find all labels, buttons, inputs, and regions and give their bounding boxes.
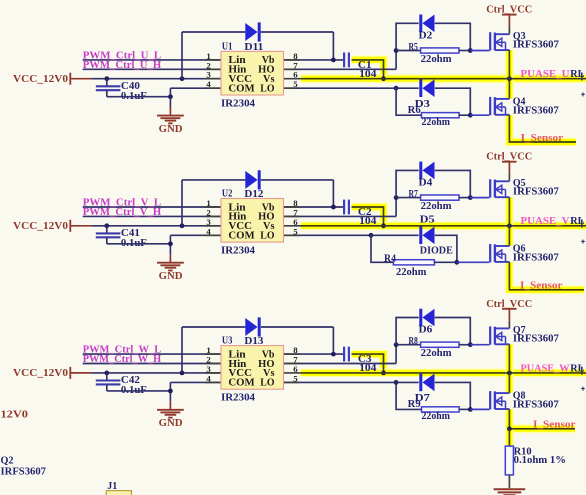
svg-text:IRFS3607: IRFS3607 bbox=[513, 253, 559, 264]
net label PUASE_VRL bbox=[521, 215, 585, 227]
resistor R9 22ohm bbox=[396, 382, 470, 422]
svg-text:3: 3 bbox=[206, 217, 211, 227]
wire C42 to ground bbox=[107, 390, 171, 392]
wire pin1 Lin U2 bbox=[83, 206, 221, 208]
wire D2 loop bbox=[396, 23, 470, 50]
diode D11 bbox=[245, 22, 259, 41]
power label 12V0 (cut off) bbox=[1, 410, 29, 421]
net label PWM_Ctrl_U_H bbox=[83, 59, 162, 71]
wire drain Q5 / source to phase / drain Q6 bbox=[508, 197, 510, 246]
junction Vs / C3 bbox=[381, 371, 386, 376]
svg-text:COM: COM bbox=[228, 378, 255, 389]
svg-text:6: 6 bbox=[293, 70, 298, 80]
junction phase node Q7/Q8 bbox=[507, 371, 512, 376]
svg-text:PUASE_W: PUASE_W bbox=[521, 362, 570, 374]
diode D3 bbox=[415, 79, 435, 109]
svg-text:3: 3 bbox=[206, 364, 211, 374]
net highlight C2 to Vs (yellow) bbox=[352, 207, 384, 226]
off-sheet tick phase rail bbox=[581, 220, 585, 244]
svg-text:DIODE: DIODE bbox=[420, 246, 453, 257]
junction pin3 / C40 bbox=[104, 76, 109, 81]
junction Vb / C2 bbox=[331, 205, 336, 210]
svg-text:Q2: Q2 bbox=[1, 456, 14, 467]
net highlight Q6 source to I_Sensor (yellow) bbox=[509, 262, 584, 290]
wire pin5 LO U2 bbox=[284, 234, 371, 236]
junction R5 / D2 / gate Q3 bbox=[468, 48, 473, 53]
svg-text:12V0: 12V0 bbox=[1, 410, 29, 421]
wire C40 to ground bbox=[107, 96, 171, 98]
wire gate Q4 bbox=[470, 114, 489, 116]
junction pin3 / D11 branch bbox=[180, 76, 185, 81]
svg-text:IRFS3607: IRFS3607 bbox=[513, 334, 559, 345]
net label PUASE_URL bbox=[521, 68, 585, 80]
transistor Q4 IRFS3607 bbox=[490, 97, 559, 117]
wire pin1 Lin U1 bbox=[83, 59, 221, 61]
junction COM / C41 / ground bbox=[168, 241, 173, 246]
svg-text:R5: R5 bbox=[409, 42, 418, 53]
svg-text:GND: GND bbox=[159, 271, 183, 282]
wire pin3 VCC U1 bbox=[92, 78, 221, 80]
power port Ctrl_VCC bbox=[486, 299, 532, 321]
ground GND bbox=[157, 107, 184, 135]
net highlight Q3/Q4 phase column (yellow) bbox=[505, 50, 514, 99]
wire Ctrl_VCC to drain Q7 bbox=[508, 321, 510, 329]
svg-text:U1: U1 bbox=[222, 41, 233, 52]
power port VCC_12V0 bbox=[13, 73, 92, 85]
wire VCC to bootstrap diode D12 bbox=[182, 180, 245, 226]
wire drain Q7 / source to phase / drain Q8 bbox=[508, 344, 510, 393]
svg-text:VCC_12V0: VCC_12V0 bbox=[13, 74, 68, 85]
svg-text:LO: LO bbox=[260, 84, 274, 95]
power port Ctrl_VCC bbox=[486, 5, 532, 27]
wire pin2 Hin U3 bbox=[83, 363, 221, 365]
resistor R8 22ohm bbox=[396, 336, 470, 359]
transistor Q5 IRFS3607 bbox=[490, 178, 559, 198]
wire pin8 Vb U3 bbox=[284, 353, 344, 355]
net label PWM_Ctrl_U_L bbox=[83, 49, 162, 61]
svg-text:PUASE_U: PUASE_U bbox=[521, 68, 570, 80]
junction COM / C42 / ground bbox=[168, 389, 173, 394]
wire gate Q3 bbox=[470, 50, 489, 52]
net label PWM_Ctrl_W_L bbox=[83, 344, 162, 356]
svg-text:R4: R4 bbox=[384, 253, 397, 264]
U2 pin numbers bbox=[206, 198, 298, 236]
resistor R6 22ohm bbox=[396, 88, 470, 128]
wire pin6 Vs phase rail PUASE_WRL bbox=[284, 372, 586, 374]
svg-text:D12: D12 bbox=[244, 189, 263, 200]
svg-text:22ohm: 22ohm bbox=[396, 267, 427, 278]
svg-text:PWM_Ctrl_V_H: PWM_Ctrl_V_H bbox=[83, 206, 162, 218]
svg-text:LO: LO bbox=[260, 378, 274, 389]
wire gate Q8 bbox=[470, 408, 489, 410]
svg-text:R7: R7 bbox=[409, 189, 418, 200]
svg-text:U3: U3 bbox=[222, 336, 233, 347]
diode D6 bbox=[419, 309, 435, 336]
IC U3 IR2304 bbox=[221, 336, 284, 404]
svg-text:22ohm: 22ohm bbox=[422, 411, 451, 422]
transistor Q3 IRFS3607 bbox=[490, 31, 559, 51]
junction I_Sensor / R10 bbox=[507, 426, 512, 431]
capacitor C3 104 bbox=[344, 347, 377, 375]
U3 pin names bbox=[228, 349, 274, 388]
IC U1 IR2304 bbox=[221, 41, 284, 109]
svg-text:22ohm: 22ohm bbox=[422, 117, 451, 128]
junction Vs / C2 bbox=[381, 223, 386, 228]
svg-text:COM: COM bbox=[228, 84, 255, 95]
svg-text:22ohm: 22ohm bbox=[421, 348, 452, 359]
svg-text:3: 3 bbox=[206, 70, 211, 80]
off-sheet tick phase rail bbox=[581, 72, 585, 96]
U1 pin names bbox=[228, 55, 274, 94]
svg-text:4: 4 bbox=[206, 226, 211, 236]
wire gate Q7 bbox=[470, 344, 489, 346]
diode D2 bbox=[419, 15, 435, 42]
net highlight Q7/Q8 phase column (yellow) bbox=[505, 344, 514, 393]
net label I_Sensor bbox=[520, 281, 563, 292]
svg-text:VCC_12V0: VCC_12V0 bbox=[13, 221, 68, 232]
svg-text:COM: COM bbox=[228, 231, 255, 242]
ground below R10 bbox=[494, 489, 526, 495]
svg-text:4: 4 bbox=[206, 79, 211, 89]
svg-text:PWM_Ctrl_U_H: PWM_Ctrl_U_H bbox=[83, 59, 162, 71]
diode D13 bbox=[245, 317, 259, 336]
capacitor C40 0.1uF bbox=[96, 79, 147, 102]
net highlight C1 to Vs (yellow) bbox=[352, 60, 384, 79]
svg-text:5: 5 bbox=[293, 373, 298, 383]
wire gate Q6 bbox=[457, 261, 490, 263]
svg-text:IR2304: IR2304 bbox=[221, 98, 256, 109]
power port Ctrl_VCC bbox=[486, 152, 532, 174]
net highlight phase rail PUASE_VRL (yellow) bbox=[301, 221, 586, 230]
resistor R4 22ohm bbox=[371, 235, 457, 277]
junction Vb / C3 bbox=[331, 352, 336, 357]
transistor Q7 IRFS3607 bbox=[490, 325, 559, 345]
net highlight C3 to Vs (yellow) bbox=[352, 354, 384, 373]
svg-text:D5: D5 bbox=[420, 214, 435, 225]
wire D13 cathode to Vb bbox=[261, 327, 334, 354]
wire C2 to Vs bbox=[352, 207, 384, 226]
wire pin2 Hin U2 bbox=[83, 215, 221, 217]
wire VCC to bootstrap diode D13 bbox=[182, 327, 245, 373]
net label PWM_Ctrl_V_H bbox=[83, 206, 162, 218]
wire pin6 Vs phase rail PUASE_URL bbox=[284, 78, 586, 80]
svg-text:4: 4 bbox=[206, 373, 211, 383]
svg-text:D13: D13 bbox=[244, 336, 263, 347]
wire D5 row bbox=[371, 235, 457, 262]
capacitor C41 0.1uF bbox=[96, 226, 147, 249]
svg-text:GND: GND bbox=[159, 418, 183, 429]
svg-text:IR2304: IR2304 bbox=[221, 393, 256, 404]
junction LO / R6 / D3 bbox=[394, 86, 399, 91]
power port VCC_12V0 bbox=[13, 220, 92, 232]
net highlight phase rail PUASE_WRL (yellow) bbox=[301, 368, 586, 377]
svg-text:R8: R8 bbox=[409, 336, 418, 347]
transistor Q2 IRFS3607 (off-sheet, label only) bbox=[1, 456, 46, 478]
capacitor C42 0.1uF bbox=[96, 373, 147, 396]
wire pin2 Hin U1 bbox=[83, 68, 221, 70]
wire pin3 VCC U3 bbox=[92, 372, 221, 374]
net highlight phase rail PUASE_URL (yellow) bbox=[301, 74, 586, 83]
resistor R5 22ohm bbox=[396, 42, 470, 65]
junction COM / C40 / ground bbox=[168, 94, 173, 99]
net label I_Sensor bbox=[533, 420, 576, 431]
net highlight Q4 source to I_Sensor (yellow) bbox=[509, 115, 576, 142]
wire pin5 LO U3 bbox=[284, 381, 396, 383]
ground GND bbox=[157, 401, 184, 429]
junction Vb / C1 bbox=[331, 58, 336, 63]
svg-text:R6: R6 bbox=[408, 105, 421, 116]
transistor Q6 IRFS3607 bbox=[490, 244, 559, 264]
svg-text:6: 6 bbox=[293, 217, 298, 227]
wire pin4 COM U2 bbox=[170, 235, 221, 254]
junction pin3 / D13 branch bbox=[180, 371, 185, 376]
svg-text:22ohm: 22ohm bbox=[421, 201, 452, 212]
junction R8 / D6 / gate Q7 bbox=[468, 342, 473, 347]
power port VCC_12V0 bbox=[13, 367, 92, 379]
net label PWM_Ctrl_V_L bbox=[83, 197, 162, 209]
U2 pin names bbox=[228, 202, 274, 241]
svg-text:D11: D11 bbox=[244, 42, 263, 53]
wire pin5 LO U1 bbox=[284, 87, 396, 89]
svg-text:6: 6 bbox=[293, 364, 298, 374]
net label I_Sensor bbox=[521, 133, 564, 144]
svg-text:I_Sensor: I_Sensor bbox=[521, 133, 564, 144]
IC U2 IR2304 bbox=[221, 188, 284, 256]
wire pin7 HO U2 bbox=[284, 198, 396, 217]
junction pin3 / C41 bbox=[104, 223, 109, 228]
capacitor C2 104 bbox=[344, 200, 377, 228]
wire C41 to ground bbox=[107, 243, 171, 245]
net highlight Q5/Q6 phase column (yellow) bbox=[505, 197, 514, 246]
net label PUASE_WRL bbox=[521, 362, 585, 374]
junction R6 / D3 / gate Q4 bbox=[468, 113, 473, 118]
wire D3 row bbox=[396, 88, 470, 115]
wire source Q8 to I_Sensor bbox=[509, 409, 575, 429]
svg-text:D6: D6 bbox=[419, 325, 433, 336]
wire C3 to Vs bbox=[352, 354, 384, 373]
diode D12 bbox=[245, 170, 259, 189]
wire pin6 Vs phase rail PUASE_VRL bbox=[284, 225, 586, 227]
junction LO / R9 / D7 bbox=[394, 380, 399, 385]
wire pin8 Vb U1 bbox=[284, 59, 344, 61]
junction R4 / D5 / gate Q6 bbox=[455, 260, 460, 265]
diode D4 bbox=[419, 162, 435, 189]
wire D4 loop bbox=[396, 170, 470, 197]
wire D11 cathode to Vb bbox=[261, 32, 334, 60]
svg-text:IRFS3607: IRFS3607 bbox=[513, 40, 559, 51]
ground GND bbox=[157, 254, 184, 282]
junction phase node Q3/Q4 bbox=[507, 76, 512, 81]
svg-text:I_Sensor: I_Sensor bbox=[520, 281, 563, 292]
svg-text:U2: U2 bbox=[222, 188, 233, 199]
wire Ctrl_VCC to drain Q5 bbox=[508, 174, 510, 182]
svg-text:IRFS3607: IRFS3607 bbox=[1, 467, 46, 478]
wire D12 cathode to Vb bbox=[261, 180, 334, 207]
off-sheet tick phase rail bbox=[581, 367, 585, 391]
resistor R7 22ohm bbox=[396, 189, 470, 212]
junction phase node Q5/Q6 bbox=[507, 223, 512, 228]
capacitor C1 104 bbox=[344, 53, 377, 81]
svg-text:D2: D2 bbox=[419, 31, 433, 42]
svg-text:0.1ohm 1%: 0.1ohm 1% bbox=[514, 455, 566, 466]
wire pin8 Vb U2 bbox=[284, 206, 344, 208]
svg-text:5: 5 bbox=[293, 226, 298, 236]
diode D7 bbox=[415, 374, 435, 404]
junction HO / R8 / D6 bbox=[394, 342, 399, 347]
svg-text:D4: D4 bbox=[419, 178, 434, 189]
net label PWM_Ctrl_W_H bbox=[83, 353, 162, 365]
wire D7 row bbox=[396, 382, 470, 409]
junction HO / R5 / D2 bbox=[394, 48, 399, 53]
U3 pin numbers bbox=[206, 345, 298, 383]
svg-text:IRFS3607: IRFS3607 bbox=[513, 187, 559, 198]
wire pin1 Lin U3 bbox=[83, 353, 221, 355]
wire pin7 HO U3 bbox=[284, 345, 396, 364]
wire pin4 COM U3 bbox=[170, 382, 221, 401]
wire source Q6 to I_Sensor bbox=[509, 262, 584, 290]
wire pin4 COM U1 bbox=[170, 88, 221, 107]
svg-text:IR2304: IR2304 bbox=[221, 246, 256, 257]
svg-text:I_Sensor: I_Sensor bbox=[533, 420, 576, 431]
junction R9 / D7 / gate Q8 bbox=[468, 407, 473, 412]
resistor R10 0.1ohm 1% bbox=[505, 429, 566, 475]
junction Vs / C1 bbox=[381, 76, 386, 81]
svg-text:VCC_12V0: VCC_12V0 bbox=[13, 368, 68, 379]
svg-text:R9: R9 bbox=[408, 399, 421, 410]
U1 pin numbers bbox=[206, 51, 298, 89]
connector J1 (cut off at bottom) bbox=[106, 481, 131, 495]
svg-text:22ohm: 22ohm bbox=[421, 54, 452, 65]
wire pin7 HO U1 bbox=[284, 51, 396, 70]
svg-text:PUASE_V: PUASE_V bbox=[521, 215, 570, 227]
wire Ctrl_VCC to drain Q3 bbox=[508, 27, 510, 35]
junction LO / R4 / D5 bbox=[369, 233, 374, 238]
svg-text:LO: LO bbox=[260, 231, 274, 242]
wire gate Q5 bbox=[470, 197, 489, 199]
svg-text:5: 5 bbox=[293, 79, 298, 89]
diode D5 DIODE bbox=[420, 214, 453, 256]
wire D6 loop bbox=[396, 318, 470, 345]
svg-text:GND: GND bbox=[159, 124, 183, 135]
junction R7 / D4 / gate Q5 bbox=[468, 195, 473, 200]
wire C1 to Vs bbox=[352, 60, 384, 79]
wire pin3 VCC U2 bbox=[92, 225, 221, 227]
wire drain Q3 / source to phase / drain Q4 bbox=[508, 50, 510, 99]
svg-text:IRFS3607: IRFS3607 bbox=[513, 400, 559, 411]
svg-text:IRFS3607: IRFS3607 bbox=[513, 105, 559, 116]
net highlight Q8 source to I_Sensor (yellow) bbox=[509, 409, 575, 446]
wire VCC to bootstrap diode D11 bbox=[182, 32, 245, 79]
wire source Q4 to I_Sensor bbox=[509, 115, 576, 142]
junction HO / R7 / D4 bbox=[394, 195, 399, 200]
junction pin3 / C42 bbox=[104, 371, 109, 376]
wire R10 to ground bbox=[508, 475, 510, 488]
svg-text:PWM_Ctrl_W_H: PWM_Ctrl_W_H bbox=[83, 353, 162, 365]
transistor Q8 IRFS3607 bbox=[490, 391, 559, 411]
junction pin3 / D12 branch bbox=[180, 223, 185, 228]
